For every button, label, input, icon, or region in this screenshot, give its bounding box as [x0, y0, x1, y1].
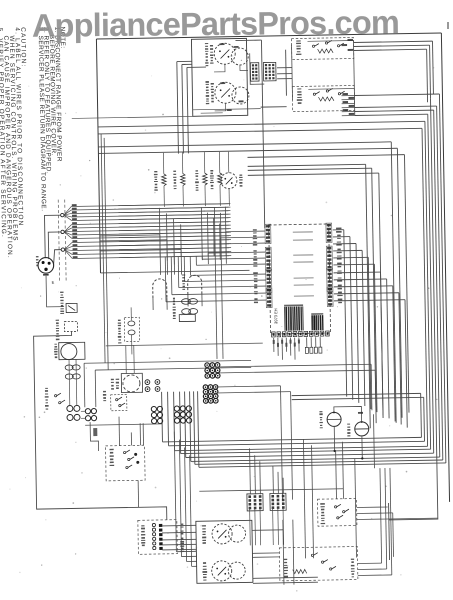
svg-text:AppliancePartsPros.com: AppliancePartsPros.com	[32, 4, 399, 44]
svg-text:E: E	[52, 280, 55, 285]
svg-text:3973 EH: 3973 EH	[273, 308, 278, 324]
